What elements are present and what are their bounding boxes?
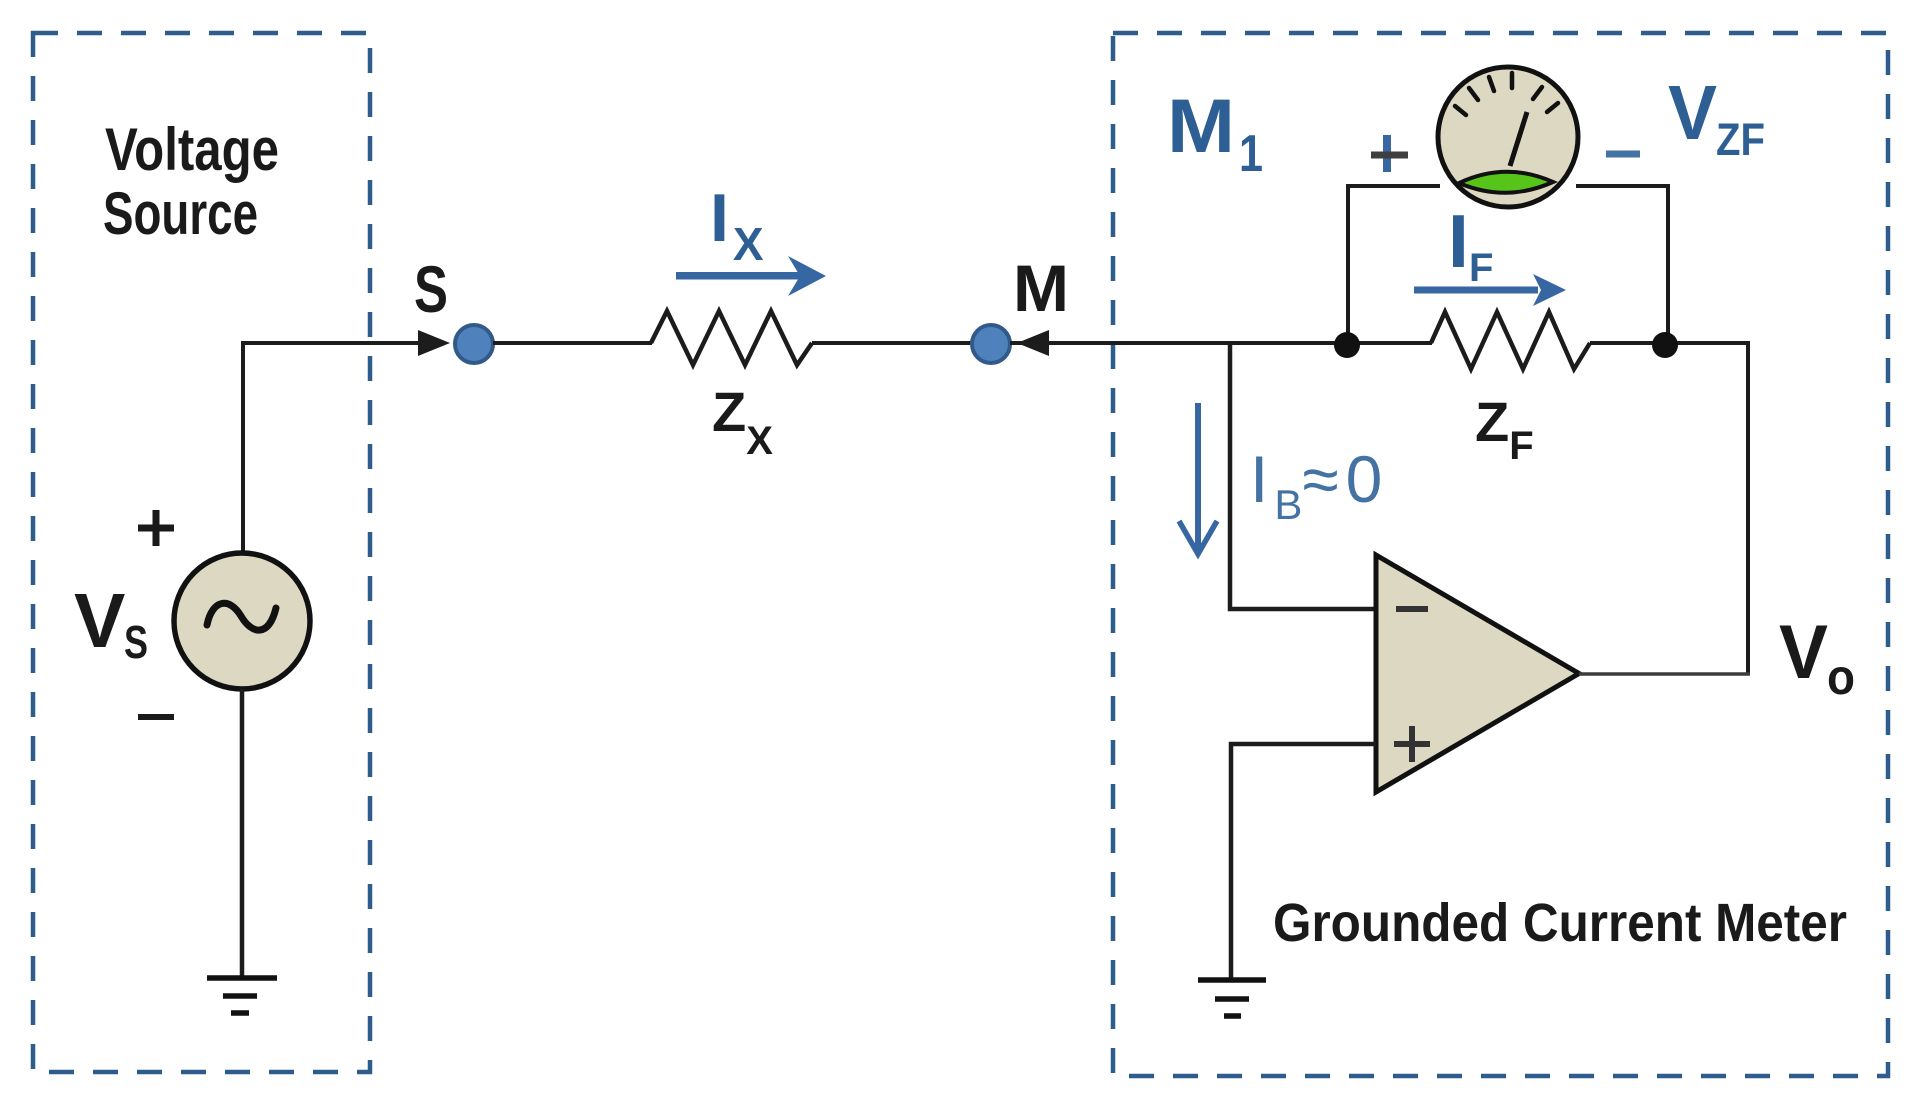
- - polarity label: [138, 714, 174, 720]
- grounded current meter enclosure box: [1113, 33, 1888, 1076]
- resistor Zf: [1431, 312, 1590, 369]
- - label (meter right terminal): [1606, 151, 1640, 158]
- svg-text:ZF: ZF: [1716, 114, 1765, 165]
- + polarity label: [138, 510, 174, 546]
- svg-text:Grounded Current Meter: Grounded Current Meter: [1273, 893, 1847, 953]
- svg-text:V: V: [1779, 610, 1828, 695]
- wire: voltage source to ground: [240, 689, 245, 978]
- svg-text:S: S: [414, 252, 448, 326]
- + label (meter left terminal): [1371, 135, 1408, 172]
- wire: voltage source top to node S: [243, 343, 424, 553]
- ground (voltage source): [207, 978, 277, 1013]
- current Ix arrow: [676, 256, 826, 296]
- svg-text:M: M: [1013, 251, 1069, 325]
- svg-text:1: 1: [1239, 125, 1263, 183]
- svg-text:I: I: [1448, 199, 1469, 283]
- op-amp non-inverting input marking: [1394, 726, 1430, 762]
- op-amp output wire: [1579, 672, 1750, 676]
- node S: [455, 325, 493, 363]
- wire: meter loop left leg: [1348, 186, 1440, 343]
- voltage source enclosure box: [33, 33, 370, 1072]
- wire: node S to resistor Zx: [493, 341, 652, 345]
- voltage source V_S: [174, 553, 310, 689]
- op-amp inverting input marking: [1396, 606, 1428, 612]
- svg-text:S: S: [124, 616, 148, 668]
- svg-text:F: F: [1469, 246, 1493, 290]
- wire: resistor Zf to feedback corner: [1590, 341, 1750, 345]
- meter needle: [1510, 112, 1527, 166]
- svg-text:Voltage: Voltage: [105, 116, 279, 183]
- svg-text:V: V: [74, 578, 125, 664]
- resistor Zx: [651, 311, 812, 365]
- wire: inverting input branch: [1230, 343, 1376, 609]
- feedback wire down to output: [1746, 343, 1750, 674]
- current I_F arrow: [1414, 274, 1566, 306]
- svg-text:M: M: [1167, 84, 1235, 169]
- wire: node M into meter box: [1010, 341, 1348, 345]
- wire: resistor Zx to node M: [812, 341, 973, 345]
- junction dot (output node): [1652, 332, 1678, 358]
- meter ticks: [1455, 73, 1558, 115]
- arrowhead into node S: [418, 330, 450, 356]
- arrowhead into node M: [1017, 330, 1049, 356]
- wire: meter loop right leg: [1576, 186, 1668, 343]
- meter green scale arc: [1459, 172, 1553, 193]
- svg-text:o: o: [1827, 649, 1855, 705]
- svg-text:V: V: [1668, 70, 1717, 156]
- current I_B arrow: [1179, 403, 1217, 554]
- junction dot (inverting node): [1334, 332, 1360, 358]
- wire: junction to resistor Zf: [1348, 341, 1432, 345]
- meter M1 face: [1438, 67, 1578, 207]
- node M: [972, 325, 1010, 363]
- svg-text:Source: Source: [103, 180, 258, 247]
- op-amp U1: [1376, 555, 1579, 792]
- sine wave symbol: [207, 603, 276, 630]
- wire: non-inverting input to ground: [1231, 744, 1376, 978]
- ground (op-amp non-inverting): [1198, 980, 1266, 1016]
